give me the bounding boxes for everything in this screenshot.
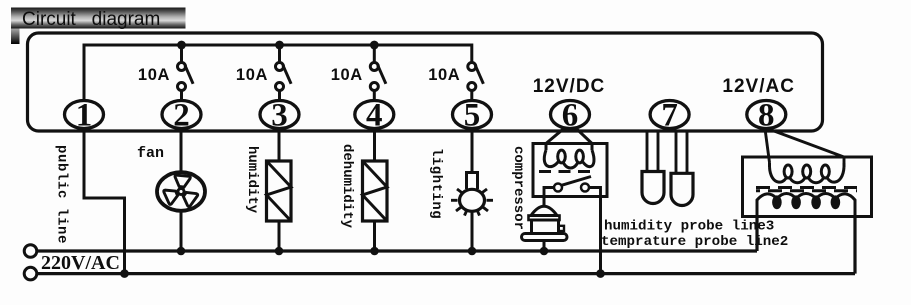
compressor motor	[522, 206, 568, 240]
humidity heater resistor	[267, 161, 292, 221]
wire terminal4 to dehumidity heater	[373, 129, 376, 162]
wire terminal8 to transformer primary right	[770, 130, 844, 164]
wire relay to compressor motor	[543, 197, 546, 208]
svg-text:12V/AC: 12V/AC	[722, 76, 795, 97]
svg-text:compressor: compressor	[510, 146, 526, 230]
transformer secondary winding	[757, 194, 855, 217]
wire terminal6 to relay left	[546, 129, 564, 144]
transformer box	[743, 157, 872, 217]
220V/AC terminal lower	[24, 267, 37, 280]
junction dot feeder S3	[275, 41, 284, 50]
svg-text:lighting: lighting	[428, 148, 444, 219]
wire terminal8 to transformer primary left	[765, 129, 770, 163]
wire compressor motor to bus1	[543, 241, 546, 252]
wire lamp to bus1	[471, 211, 474, 251]
junction public line / bus2	[120, 269, 129, 278]
junction dot feeder S4	[370, 41, 379, 50]
junction fan / bus1	[177, 247, 186, 256]
transformer primary winding	[770, 163, 845, 183]
svg-text:1: 1	[76, 98, 93, 134]
humidity probe bulb	[642, 172, 664, 204]
svg-text:220V/AC: 220V/AC	[41, 252, 120, 274]
fan motor	[157, 172, 205, 211]
lamp	[451, 173, 493, 216]
wire public line from terminal 1 to bottom bus	[84, 129, 125, 274]
junction dot feeder S2	[177, 41, 186, 50]
switch S2	[178, 45, 194, 101]
svg-text:12V/DC: 12V/DC	[533, 76, 606, 97]
svg-text:8: 8	[758, 98, 775, 134]
svg-text:5: 5	[464, 98, 481, 134]
svg-text:10A: 10A	[138, 66, 170, 84]
wire fan to bus1	[180, 211, 183, 251]
wire feeder bus from terminal 1 to switches	[84, 45, 472, 101]
wire terminal5 to lamp	[471, 129, 474, 174]
svg-text:temprature probe line2: temprature probe line2	[601, 234, 788, 250]
junction lighting / bus1	[468, 247, 477, 256]
svg-text:fan: fan	[137, 145, 164, 162]
relay core dashed line	[539, 170, 590, 173]
dehumidity heater resistor	[363, 161, 388, 221]
wire pair temperature probe	[676, 130, 687, 173]
transformer core dashed lines	[756, 188, 857, 191]
svg-text:Circuit diagram: Circuit diagram	[22, 9, 160, 30]
terminal 8	[747, 98, 786, 134]
terminal 5	[453, 98, 492, 134]
temperature probe bulb	[671, 173, 693, 205]
terminal 7	[650, 98, 689, 134]
compressor relay box	[533, 144, 607, 197]
svg-text:10A: 10A	[331, 66, 363, 84]
switch S5	[468, 63, 484, 101]
wire relay right to bus2	[599, 197, 602, 274]
svg-text:10A: 10A	[236, 66, 268, 84]
svg-text:public line: public line	[54, 145, 70, 244]
terminal 4	[355, 98, 394, 134]
svg-text:humidity: humidity	[244, 146, 260, 214]
junction humidity / bus1	[275, 247, 284, 256]
wire terminal6 to relay right	[577, 129, 593, 144]
terminal block outline	[28, 33, 823, 131]
wire dehumidity heater to bus1	[373, 221, 376, 251]
terminal 6	[551, 98, 590, 134]
wire pair humidity probe	[647, 130, 658, 172]
relay coil	[544, 144, 594, 169]
switch S3	[276, 45, 292, 101]
terminal 2	[162, 98, 201, 134]
terminal 3	[260, 98, 299, 134]
svg-text:10A: 10A	[428, 66, 460, 84]
relay contact switch	[544, 177, 601, 197]
wire humidity heater to bus1	[278, 221, 281, 251]
junction relay / bus2	[596, 269, 605, 278]
220V/AC terminal upper	[24, 245, 37, 258]
bus1 line (phase)	[37, 217, 757, 252]
svg-text:4: 4	[366, 98, 383, 134]
junction dehumidity / bus1	[370, 247, 379, 256]
switch S4	[370, 45, 386, 101]
bus2 line (neutral)	[37, 217, 855, 274]
svg-text:3: 3	[271, 98, 288, 134]
svg-text:6: 6	[562, 98, 579, 134]
wire terminal3 to humidity heater	[278, 129, 281, 162]
junction compressor / bus1	[540, 247, 549, 256]
svg-text:2: 2	[173, 98, 190, 134]
terminal 1	[65, 98, 104, 134]
svg-text:dehumidity: dehumidity	[339, 144, 355, 229]
title bar	[11, 8, 186, 45]
svg-text:7: 7	[661, 98, 678, 134]
wire terminal2 to fan	[180, 129, 183, 173]
svg-text:humidity probe line3: humidity probe line3	[604, 219, 774, 235]
